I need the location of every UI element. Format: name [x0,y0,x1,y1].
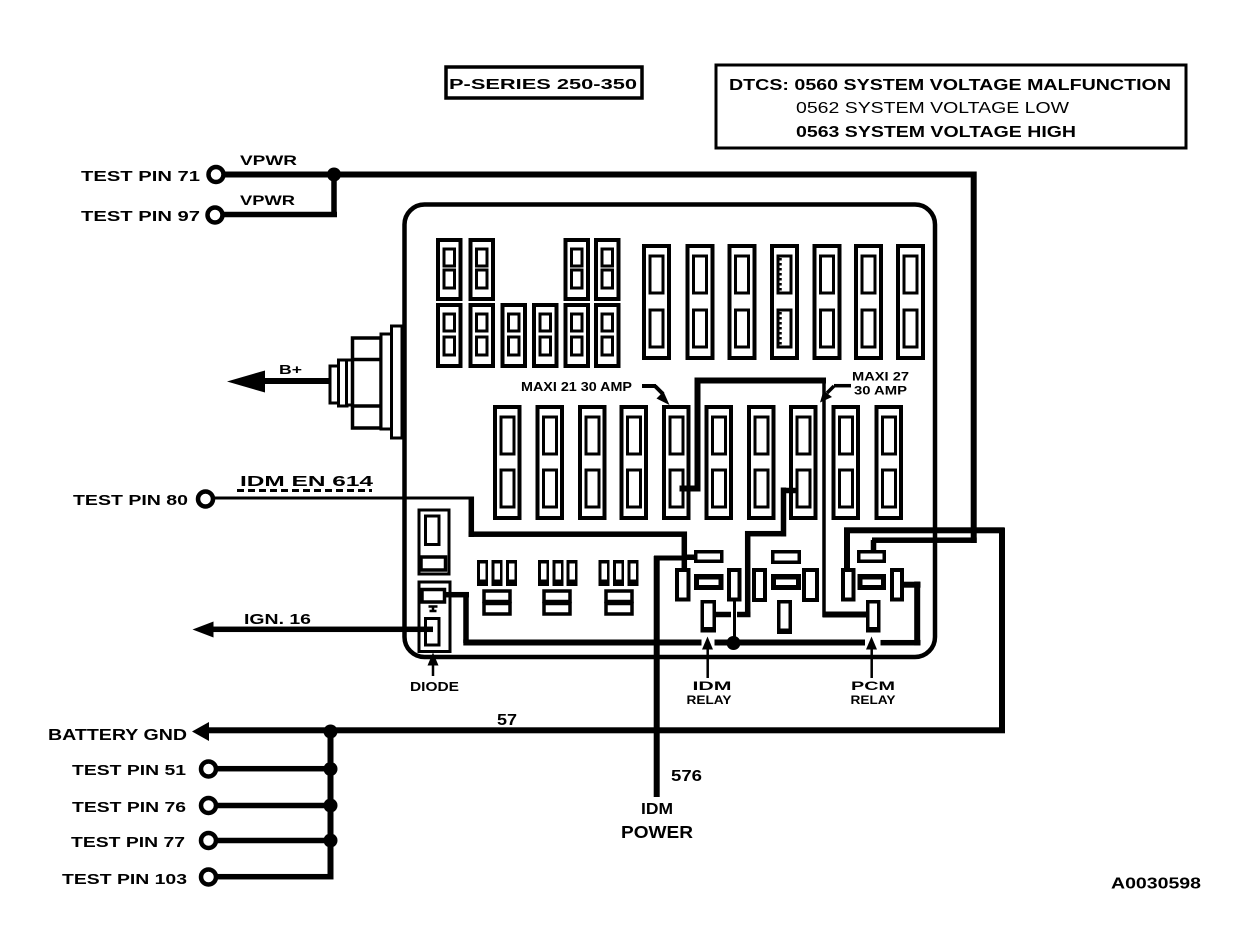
mini fuse group C [599,560,639,614]
wire test pin 76 [217,803,330,809]
label TEST PIN 71 [81,168,200,185]
B+ stud mounting plate [392,326,403,438]
label DIODE [410,679,459,694]
mini fuse row1 col5 [566,240,589,299]
label IGN. 16 [244,611,311,628]
wire test pin 51 [217,766,330,772]
wire MAXI27 fuse exit [784,488,798,494]
svg-text:VPWR: VPWR [240,192,295,208]
wire IDM POWER vertical (circuit 576) [654,556,660,797]
label MAXI 27 30 AMP [820,370,909,403]
svg-text:TEST PIN 51: TEST PIN 51 [72,762,186,779]
svg-text:IGN. 16: IGN. 16 [244,611,311,628]
diode lower slot [426,619,440,646]
svg-text:TEST PIN 76: TEST PIN 76 [72,799,186,816]
svg-text:MAXI 21 30 AMP: MAXI 21 30 AMP [521,379,632,394]
junction IDM relay [727,636,741,650]
junction test pin 76 [324,799,338,813]
diode upper bar [421,557,446,570]
test pin 80 connector [198,492,213,507]
wire IDM EN elbow down [469,497,475,538]
svg-text:PCM: PCM [851,679,895,693]
wire VPWR to PCM relay horizontal [872,537,977,543]
maxi fuse bottom row #10 [877,407,902,518]
svg-text:TEST PIN 103: TEST PIN 103 [62,871,187,888]
wire MAXI21 fuse exit [680,486,701,492]
net label IDM EN 614 [240,473,374,490]
wire PCM right elbow vertical [914,582,920,646]
wire relay loop top [844,527,1004,533]
svg-text:0563 SYSTEM VOLTAGE HIGH: 0563 SYSTEM VOLTAGE HIGH [796,124,1076,141]
wire relay bus segment 1 [463,640,701,646]
maxi fuse bottom row #9 [834,407,859,518]
label TEST PIN 103 [62,871,187,888]
mini fuse row2 col2 [471,305,494,366]
label TEST PIN 97 [81,208,200,225]
diode symbol mark [429,605,438,612]
svg-text:0562 SYSTEM VOLTAGE LOW: 0562 SYSTEM VOLTAGE LOW [796,100,1070,117]
title box P-SERIES 250-350 [446,67,642,98]
junction VPWR [327,168,341,182]
svg-text:TEST PIN 77: TEST PIN 77 [71,834,185,851]
B+ arrow [227,371,265,393]
label TEST PIN 51 [72,762,186,779]
IDM relay callout [702,637,713,679]
svg-text:BATTERY GND: BATTERY GND [48,727,187,744]
wire MAXI27 foot [737,612,751,618]
svg-text:30 AMP: 30 AMP [854,384,907,398]
svg-text:57: 57 [497,712,517,729]
svg-text:IDM EN 614: IDM EN 614 [240,473,374,490]
maxi fuse top row #1 [644,246,669,358]
wire IDM pin tab [715,612,731,618]
svg-text:POWER: POWER [621,822,693,842]
net label B+ [279,362,303,377]
svg-text:TEST PIN 71: TEST PIN 71 [81,168,200,185]
wire IDM relay right pin line [733,598,736,639]
label IDM POWER [621,801,693,842]
wire relay loop right vertical [999,528,1005,734]
B+ stud washer [381,334,392,429]
svg-text:TEST PIN 80: TEST PIN 80 [73,492,188,509]
maxi fuse bottom row #6 [707,407,732,518]
wire MAXI21 riser [695,378,701,492]
wire PCM coil riser [844,533,850,569]
wire IDM EN thin [214,497,471,500]
wire MAXI27 horizontal jog [745,531,786,537]
maxi fuse bottom row #3 [580,407,605,518]
maxi fuse bottom row #8 [791,407,816,518]
net label 57 [497,712,517,729]
svg-text:RELAY: RELAY [851,693,896,707]
B+ stud ring 1 [330,366,340,403]
junction battery gnd [324,725,338,739]
mini fuse row1 col1 [438,240,461,299]
BATTERY GND arrow [192,722,209,741]
wire MAXI27 down [745,531,751,617]
maxi fuse top row #6 [856,246,881,358]
maxi fuse top row #3 [730,246,755,358]
power distribution box outline [405,205,936,658]
wire MAXI21 down thin [822,381,826,618]
wire test pin 103 [217,874,334,880]
wire VPWR pin97 horizontal [224,212,337,218]
dashed underline IDM EN 614 [237,489,372,492]
maxi fuse bottom row #4 [622,407,647,518]
PCM relay footprint [841,550,904,633]
IDM relay contact tab [686,555,696,561]
svg-text:DIODE: DIODE [410,679,459,694]
diode lower housing [419,582,450,652]
figure number A0030598 [1111,876,1201,893]
wire VPWR pin97 riser [331,174,337,217]
maxi fuse bottom row #1 [495,407,520,518]
wire B+ stub [262,378,331,384]
svg-text:P-SERIES 250-350: P-SERIES 250-350 [449,76,637,93]
B+ stud ring 2 [339,360,348,406]
net label VPWR (pin 71) [240,152,297,168]
wire MAXI21 top horizontal [695,378,827,384]
maxi fuse top row #2 [688,246,713,358]
maxi fuse top row #5 [815,246,840,358]
wire IDM EN horizontal [469,531,688,537]
PCM relay callout [866,637,877,679]
mini fuse group B [538,560,578,614]
wire IGN horizontal [213,627,433,633]
wire VPWR right vertical [971,172,977,544]
wire relay bus segment 3 [881,640,921,646]
mini fuse row2 col4 [534,305,557,366]
svg-text:RELAY: RELAY [687,693,732,707]
label TEST PIN 80 [73,492,188,509]
junction test pin 77 [324,834,338,848]
svg-text:B+: B+ [279,362,303,377]
wire relay bus segment 2 [715,640,866,646]
svg-text:IDM: IDM [693,679,732,693]
wire VPWR pin71 horizontal [225,172,974,178]
mini fuse row1 col2 [471,240,494,299]
diode callout arrow [428,653,439,677]
test pin 76 connector [201,798,216,813]
mini fuse row1 col6 [596,240,619,299]
mini fuse row2 col1 [438,305,461,366]
wire IDM POWER tab [654,556,684,561]
test pin 77 connector [201,833,216,848]
mini fuse row2 col6 [596,305,619,366]
label TEST PIN 76 [72,799,186,816]
wire PCM right elbow horizontal [903,582,921,588]
junction test pin 51 [324,762,338,776]
maxi fuse bottom row #2 [538,407,563,518]
label IDM RELAY [687,679,732,707]
svg-text:VPWR: VPWR [240,152,297,168]
test pin 71 connector [209,167,224,182]
maxi fuse bottom row #5 [664,407,689,518]
wire diode out down [463,592,469,643]
maxi fuse top row #7 [898,246,923,358]
mini fuse group A [477,560,517,614]
mini fuse row2 col3 [503,305,526,366]
svg-text:DTCS: 0560 SYSTEM VOLTAGE MALF: DTCS: 0560 SYSTEM VOLTAGE MALFUNCTION [729,77,1171,94]
svg-text:576: 576 [671,768,702,785]
test pin 97 connector [208,208,223,223]
diode upper housing [419,510,449,574]
B+ stud ring 3 [347,360,354,405]
DTC note box [716,65,1186,148]
wire MAXI27 drop [781,488,787,537]
diode lower bar [422,590,445,603]
label PCM RELAY [851,679,896,707]
test pin bus vertical [328,730,334,877]
wire battery ground (circuit 57) [209,727,1005,733]
svg-text:MAXI 27: MAXI 27 [852,370,909,384]
test pin 51 connector [201,762,216,777]
wire IDM EN drop to relay [682,532,688,569]
wire MAXI21 to PCM pin [823,612,867,618]
maxi fuse bottom row #7 [749,407,774,518]
label MAXI 21 30 AMP [521,379,670,405]
svg-text:IDM: IDM [641,801,673,818]
wire test pin 77 [217,838,330,844]
label TEST PIN 77 [71,834,185,851]
net label 576 [671,768,702,785]
middle relay footprint [752,550,819,634]
diode upper slot [426,516,440,545]
IGN arrow [193,622,214,638]
IDM relay footprint [675,550,742,633]
maxi fuse top row #4 [772,246,797,358]
net label VPWR (pin 97) [240,192,295,208]
svg-text:A0030598: A0030598 [1111,876,1201,893]
svg-text:TEST PIN 97: TEST PIN 97 [81,208,200,225]
wire VPWR drop to PCM contact [871,540,877,551]
mini fuse row2 col5 [566,305,589,366]
B+ stud hex body [353,338,382,428]
label BATTERY GND [48,727,187,744]
test pin 103 connector [201,870,216,885]
wire diode out horizontal [445,592,470,598]
